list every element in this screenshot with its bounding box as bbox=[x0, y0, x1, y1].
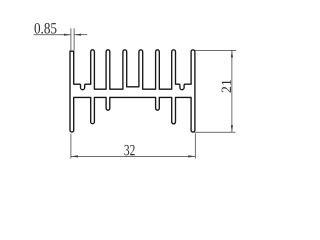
dim 32: arrows bbox=[71, 155, 195, 157]
dim 32: label bbox=[124, 145, 134, 156]
dim 21: dimension line bbox=[231, 50, 233, 132]
dim 0.85: label bbox=[34, 23, 56, 34]
dim 0.85: right stub bbox=[75, 34, 88, 36]
dim 32: extension lines bbox=[71, 133, 195, 158]
heatsink profile outline bbox=[70, 50, 195, 132]
dim 21: arrows bbox=[231, 50, 233, 132]
dim 32: dimension line bbox=[71, 155, 195, 157]
dim 21: label (rotated) bbox=[222, 80, 231, 93]
dim 21: extension lines bbox=[194, 50, 236, 132]
dim 0.85: extension lines above fin 1 bbox=[34, 28, 88, 50]
dim 0.85: left dimension line bbox=[34, 34, 71, 36]
dim 0.85: arrows bbox=[64, 34, 81, 36]
